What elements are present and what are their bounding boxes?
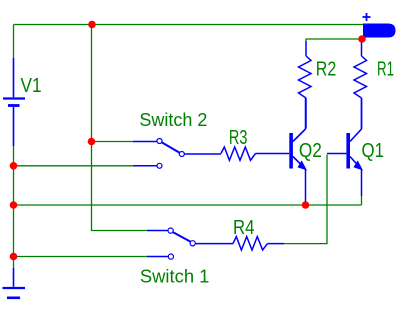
wire rail to switch1 bottom [14, 256, 148, 258]
svg-text:R1: R1 [377, 59, 394, 81]
svg-text:Q2: Q2 [299, 140, 322, 162]
switch Switch2 [133, 139, 221, 169]
switch Switch1 [147, 228, 233, 259]
wire R2 top to node [306, 39, 362, 41]
svg-text:R3: R3 [229, 127, 248, 149]
svg-text:R4: R4 [233, 217, 255, 239]
wire emitter bus [14, 204, 362, 206]
wire left rail upper [13, 25, 15, 59]
resistor R1 [354, 41, 367, 129]
svg-text:R2: R2 [316, 59, 337, 81]
junction top rail [88, 21, 96, 29]
junction switch2 top [88, 138, 96, 146]
resistor R2 [299, 41, 312, 129]
svg-text:Switch 1: Switch 1 [140, 267, 210, 287]
svg-text:Q1: Q1 [362, 140, 385, 162]
resistor R4 [233, 237, 284, 250]
battery V1 [3, 58, 25, 146]
ground [3, 268, 26, 298]
junction R1 R2 supply [358, 35, 366, 43]
wire rail to switch2 bottom [14, 165, 134, 167]
wire node to switch2 top [92, 141, 134, 143]
resistor R3 [221, 147, 289, 160]
junction rail switch1 [10, 253, 18, 261]
wire Q1 emitter to bus [361, 196, 363, 205]
power terminal blob [363, 24, 396, 38]
wire vertical from top rail to switches [92, 25, 147, 231]
power terminal + [363, 13, 371, 21]
svg-text:Switch 2: Switch 2 [139, 110, 207, 130]
wire left rail middle [13, 146, 15, 268]
transistor Q1 [348, 98, 362, 196]
junction Q2 emitter [302, 201, 310, 209]
svg-text:V1: V1 [21, 75, 42, 97]
junction rail bus [10, 201, 18, 209]
wire Q1 base stub [327, 153, 346, 155]
junction rail switch2 [10, 162, 18, 170]
transistor Q2 [291, 98, 306, 205]
wire R4 to Q1 base [284, 155, 327, 244]
wire top rail [14, 24, 364, 26]
